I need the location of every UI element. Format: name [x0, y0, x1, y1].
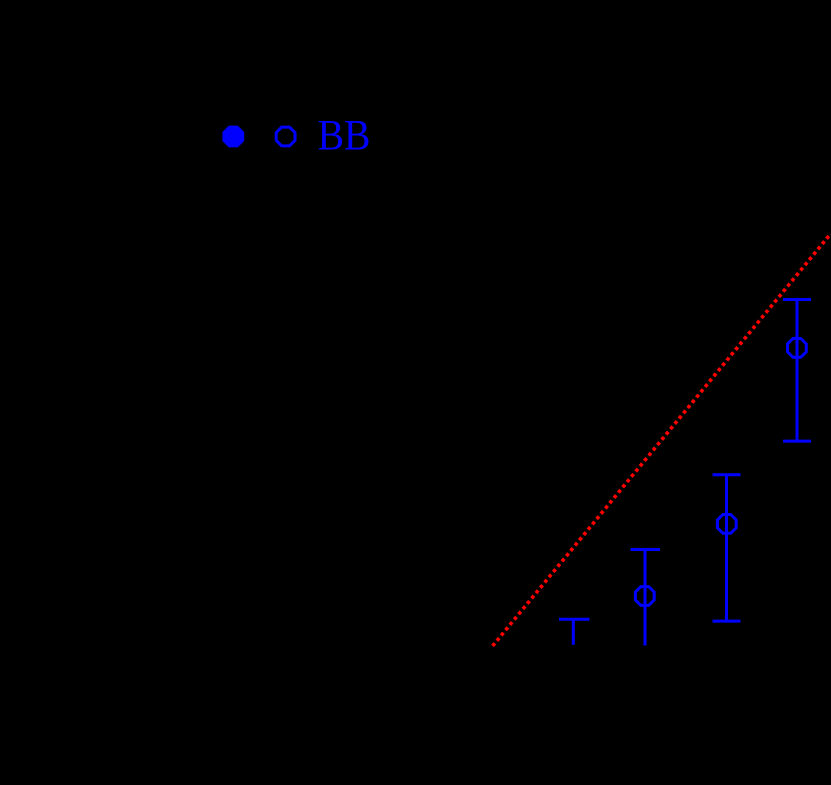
- error bar 2 bottom cap: [713, 620, 741, 623]
- error bar 1 bottom cap: [783, 440, 811, 443]
- error bar 1 open circle marker: [788, 339, 807, 358]
- error bar 1 (rightmost) vertical line: [796, 298, 799, 443]
- error bar 3 open circle marker: [635, 587, 654, 606]
- legend filled marker: [222, 126, 244, 148]
- error bar 3 vertical line (clipped at frame bottom): [644, 550, 647, 646]
- legend label BB: [318, 111, 371, 159]
- svg-text:BB: BB: [318, 111, 371, 159]
- red dotted reference line: [493, 235, 830, 646]
- error bar 2 open circle marker: [717, 515, 736, 534]
- error bar 4 vertical line (marker below frame, clipped): [572, 619, 575, 645]
- error bar 1 top cap: [783, 298, 811, 301]
- error bar 4 top cap: [559, 618, 590, 621]
- error bar 2 vertical line: [725, 475, 728, 621]
- error bar 2 top cap: [713, 473, 741, 476]
- legend open marker: [276, 127, 295, 146]
- error bar 3 top cap: [631, 548, 661, 551]
